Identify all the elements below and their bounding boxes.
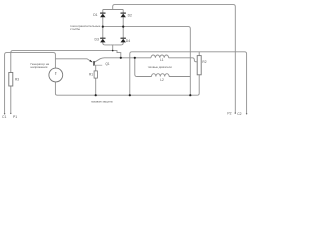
inductor L1 (151, 55, 169, 58)
svg-text:Q1: Q1 (105, 62, 109, 66)
wire L2 branch (135, 58, 152, 77)
svg-text:R3: R3 (15, 77, 19, 81)
resistor R3 (9, 73, 20, 87)
wire B from pin P1 through R3 up and right with jog (11, 51, 121, 114)
wire right rail through D2 (122, 10, 124, 27)
wire bridge bottom stub (111, 45, 115, 51)
wire R1 leads (95, 65, 97, 95)
svg-text:R1: R1 (89, 73, 93, 77)
svg-text:L2: L2 (160, 78, 164, 82)
wire bottom bus from source to R2 bottom (55, 75, 199, 95)
svg-text:D1: D1 (93, 13, 97, 17)
wire left rail through D1 (102, 10, 104, 27)
wire bridge top bus (103, 9, 123, 11)
diode D2 (121, 13, 133, 18)
svg-text:P2: P2 (227, 111, 231, 115)
terminal end dots (4, 112, 247, 114)
wire collector lead to horizontal run (94, 58, 151, 63)
junction dots (95, 26, 192, 97)
wire right rail through D4 (115, 27, 124, 45)
wire base lead from source to transistor (55, 59, 92, 62)
svg-text:тяговые двигатели: тяговые двигатели (148, 65, 173, 69)
resistor R2 (197, 56, 207, 75)
wire L1 right to R2 left (169, 58, 198, 62)
svg-text:D3: D3 (95, 38, 99, 42)
inductor L2 (152, 74, 170, 77)
svg-text:напряжения: напряжения (31, 65, 48, 69)
wire top bus to right edge (113, 5, 236, 114)
svg-text:L1: L1 (160, 58, 164, 62)
wire R2 top stub (198, 52, 200, 56)
wire rise at x=129.8 and long run to right pin (130, 52, 247, 114)
wire drop x=129.8 to bottom bus (129, 58, 131, 95)
diode D4 (121, 38, 131, 43)
svg-text:C2: C2 (237, 112, 241, 116)
diode D1 (93, 13, 105, 17)
svg-text:P1: P1 (13, 115, 17, 119)
svg-text:столбы: столбы (70, 27, 80, 31)
transistor Q1 (89, 60, 110, 66)
svg-text:D4: D4 (126, 39, 130, 43)
wire mid node line to vertical x=190 (103, 27, 191, 96)
svg-text:C1: C1 (2, 115, 6, 119)
resistor R1 (89, 71, 97, 78)
generator source circle G1 (49, 68, 63, 82)
svg-text:газовая защита: газовая защита (91, 99, 113, 103)
wire left rail through D3 (103, 27, 111, 45)
wire A from pin C1 up and right to source top (5, 53, 56, 114)
diode D3 (95, 38, 106, 43)
wire L2 right to vertical x=190 (169, 76, 190, 78)
svg-text:D2: D2 (128, 14, 132, 18)
svg-text:R2: R2 (202, 60, 206, 64)
